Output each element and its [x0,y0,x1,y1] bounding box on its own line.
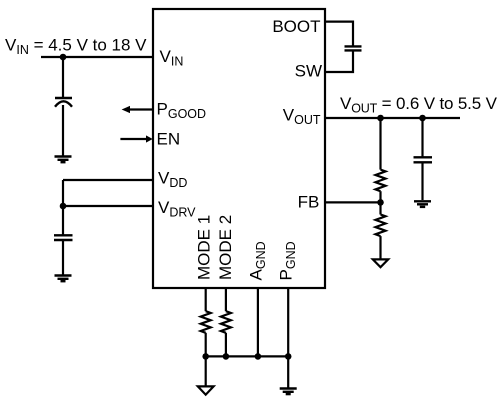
svg-text:FB: FB [298,192,320,211]
wire FB to R2 [379,202,381,214]
pin label AGND [247,241,269,280]
wire bus to signal ground [205,356,207,386]
capacitor C2 (VDD bypass) [54,235,73,240]
pin label SW [295,62,322,81]
node VDRV junction [60,203,67,210]
node FB junction [377,199,384,206]
svg-text:BOOT: BOOT [272,17,320,36]
capacitor C1 (polarized input cap) [55,98,72,107]
wire R2 to signal ground [379,236,381,259]
pin label MODE 1 [195,215,214,280]
wire VDD down to VDRV [62,180,64,206]
pin label BOOT [272,17,320,36]
ground VDD cap [55,276,72,282]
pin label PGND [277,241,299,280]
wire bus to power ground [287,356,289,388]
node VOUT divider junction [377,115,384,122]
wire R1 to FB [379,191,381,202]
pin label VDD [158,168,187,190]
resistor R1 (feedback upper) [376,170,386,192]
node bus MODE2 [223,353,230,360]
wire junction to C1 [62,57,64,98]
node VOUT cap junction [419,115,426,122]
pin label PGOOD [157,100,207,122]
wire VOUT to R1 [379,118,381,170]
wire C4 to ground [421,162,423,200]
wire BOOT [325,22,353,47]
pin label EN [157,130,181,149]
ground signal (open triangle) FB [373,259,388,267]
wire MODE1 pin [205,288,207,311]
wire AGND pin to bus [257,288,259,356]
wire VDRV [63,205,153,207]
pin label FB [298,192,320,211]
resistor R3 (MODE 1) [201,311,211,333]
wire MODE2 pin [225,288,227,311]
arrow PGOOD output [122,106,153,113]
capacitor C3 (bootstrap) [345,46,362,50]
pin label VDRV [158,198,196,220]
wire VOUT to C4 [421,118,423,157]
svg-text:SW: SW [295,62,322,81]
node bus MODE1 [202,353,209,360]
pin label MODE 2 [216,215,235,280]
wire C2 to ground [62,240,64,275]
ground signal (open triangle) bus [198,386,214,394]
wire ground bus [206,355,289,357]
wire VDD [63,179,153,181]
pin label VIN [160,47,184,69]
label VIN = 4.5 V to 18 V [5,36,147,58]
svg-text:EN: EN [157,130,181,149]
pin label VOUT [283,106,321,128]
ground input cap [55,157,72,163]
ground power [280,389,297,395]
arrow EN input [120,135,152,142]
svg-text:MODE 2: MODE 2 [216,215,235,280]
node bus AGND [255,353,262,360]
wire R4 to bus [225,333,227,357]
wire VOUT [325,117,460,119]
capacitor C4 (output) [414,157,433,162]
ground output cap [414,201,431,207]
wire C3 to SW [325,50,353,72]
svg-text:MODE 1: MODE 1 [195,215,214,280]
node bus PGND [285,353,292,360]
wire PGND pin to bus [287,288,289,356]
resistor R2 (feedback lower) [376,215,386,237]
wire R3 to bus [205,333,207,357]
resistor R4 (MODE 2) [221,311,231,333]
wire FB [325,201,381,203]
IC U1 body [153,9,325,288]
wire VDRV to C2 [62,206,64,235]
label VOUT = 0.6 V to 5.5 V [340,94,498,116]
node input junction [60,54,67,61]
wire C1 to ground [62,105,64,156]
wire VIN input [41,56,153,58]
